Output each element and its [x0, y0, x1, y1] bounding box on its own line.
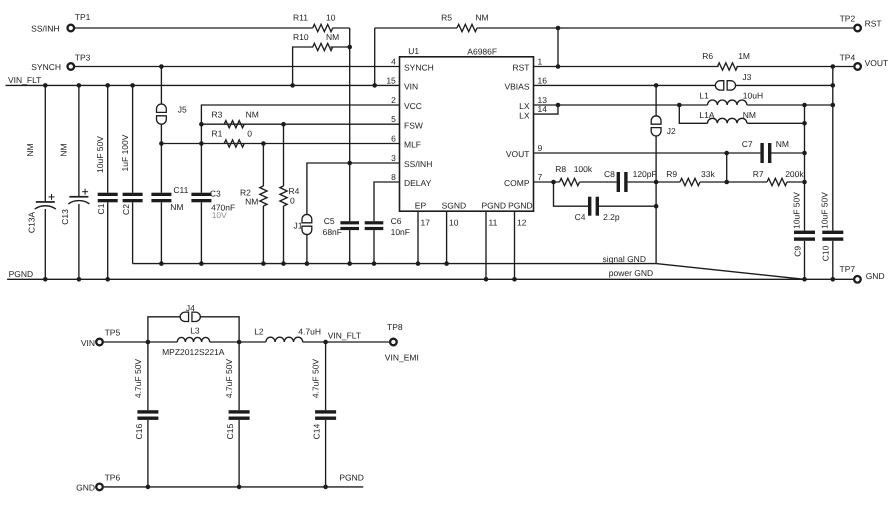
svg-text:MPZ2012S221A: MPZ2012S221A — [162, 347, 225, 357]
wire FB divider riser — [726, 153, 728, 182]
junction — [654, 204, 659, 209]
svg-text:VIN_EMI: VIN_EMI — [385, 353, 419, 363]
svg-text:R8: R8 — [555, 164, 566, 174]
wire R9 to riser — [700, 181, 727, 183]
svg-text:R10: R10 — [293, 32, 309, 42]
svg-text:TP7: TP7 — [840, 264, 856, 274]
wire VIN_FLT to pin 15 — [6, 84, 400, 86]
svg-text:SGND: SGND — [442, 201, 467, 211]
capacitor C8 — [617, 172, 620, 192]
junction — [159, 141, 164, 146]
svg-text:68nF: 68nF — [323, 227, 342, 237]
svg-text:11: 11 — [489, 217, 498, 227]
svg-text:C16: C16 — [134, 424, 144, 440]
svg-text:C13: C13 — [60, 209, 70, 225]
resistor R9 — [680, 178, 700, 185]
wire SYNCH to J5 — [160, 67, 162, 104]
svg-text:4.7uF 50V: 4.7uF 50V — [311, 359, 321, 399]
svg-text:4.7uF 50V: 4.7uF 50V — [133, 359, 143, 399]
wire LX pin14 riser — [534, 105, 559, 114]
junction — [43, 83, 48, 88]
wire C5 to signal GND — [349, 230, 351, 264]
svg-text:C9: C9 — [792, 246, 802, 257]
wire C13 to power GND — [78, 204, 80, 279]
capacitor C14 — [315, 410, 336, 413]
wire C1 to power GND — [107, 202, 109, 279]
svg-text:33k: 33k — [701, 169, 715, 179]
junction — [199, 261, 204, 266]
wire SYNCH TP3 to pin 4 — [75, 66, 400, 68]
junction — [556, 26, 561, 31]
svg-text:DELAY: DELAY — [404, 178, 432, 188]
svg-text:R5: R5 — [441, 13, 452, 23]
junction — [802, 180, 807, 185]
svg-text:NM: NM — [170, 202, 183, 212]
svg-text:C5: C5 — [324, 216, 335, 226]
capacitor C4 — [588, 197, 591, 216]
svg-text:17: 17 — [421, 217, 431, 227]
svg-text:10V: 10V — [212, 210, 227, 220]
junction — [831, 83, 836, 88]
wire EP stub — [417, 211, 419, 263]
svg-text:TP3: TP3 — [75, 53, 91, 63]
svg-text:4: 4 — [391, 57, 396, 67]
resistor R11 — [313, 24, 333, 31]
wire J2 to COMP row — [655, 135, 657, 182]
capacitor C13A — [36, 201, 55, 203]
capacitor C11 — [151, 193, 171, 196]
svg-text:GND: GND — [866, 271, 885, 281]
svg-text:R3: R3 — [212, 109, 223, 119]
svg-text:NM: NM — [25, 143, 35, 156]
capacitor C9 — [794, 231, 815, 234]
svg-text:NM: NM — [59, 143, 69, 156]
svg-text:9: 9 — [538, 143, 543, 153]
junction — [444, 261, 449, 266]
svg-text:C4: C4 — [575, 212, 586, 222]
junction — [724, 151, 729, 156]
junction — [281, 261, 286, 266]
svg-text:SYNCH: SYNCH — [404, 63, 434, 73]
wire J2 column to signal GND — [655, 182, 657, 264]
junction — [261, 261, 266, 266]
svg-text:U1: U1 — [408, 46, 419, 56]
test point TP5 — [96, 339, 103, 346]
junction — [159, 64, 164, 69]
svg-text:TP6: TP6 — [105, 472, 121, 482]
capacitor C15 — [229, 410, 250, 413]
junction — [347, 45, 352, 50]
svg-text:A6986F: A6986F — [467, 46, 497, 56]
junction — [831, 64, 836, 69]
wire C2 vertical — [132, 85, 134, 192]
svg-text:NM: NM — [326, 32, 339, 42]
wire C15 vertical — [238, 342, 240, 410]
wire VOUT pin 9 — [534, 152, 761, 154]
wire J3 to VOUT column — [735, 84, 833, 86]
test point TP7 — [854, 276, 861, 283]
junction — [556, 103, 561, 108]
svg-text:14: 14 — [538, 104, 548, 114]
svg-text:NM: NM — [246, 109, 259, 119]
inductor L1 — [708, 100, 747, 105]
svg-text:LX: LX — [519, 110, 530, 120]
svg-text:J4: J4 — [186, 303, 195, 313]
capacitor C13 — [69, 196, 88, 198]
junction — [654, 180, 659, 185]
svg-text:10uH: 10uH — [743, 91, 763, 101]
svg-text:R4: R4 — [289, 186, 300, 196]
svg-text:SS/INH: SS/INH — [404, 159, 432, 169]
svg-text:L3: L3 — [190, 325, 200, 335]
svg-text:VOUT: VOUT — [865, 58, 889, 68]
svg-text:NM: NM — [743, 110, 756, 120]
svg-text:200k: 200k — [785, 169, 804, 179]
capacitor C6 — [365, 221, 384, 224]
junction — [105, 277, 110, 282]
svg-text:SYNCH: SYNCH — [31, 62, 61, 72]
svg-text:TP8: TP8 — [387, 322, 403, 332]
wire C11 to signal GND — [160, 202, 162, 263]
wire R11 to vertical — [332, 27, 349, 29]
svg-text:C1: C1 — [96, 203, 106, 214]
svg-text:MLF: MLF — [404, 140, 421, 150]
wire R10 right — [330, 46, 349, 48]
wire DELAY pin 8 — [374, 182, 400, 221]
junction — [347, 261, 352, 266]
junction — [724, 180, 729, 185]
wire C13A vertical — [44, 85, 46, 201]
svg-text:3: 3 — [391, 153, 396, 163]
jumper J4 — [180, 312, 188, 321]
svg-text:C6: C6 — [391, 216, 402, 226]
test point TP8 — [390, 339, 397, 346]
svg-text:PGND: PGND — [482, 201, 507, 211]
svg-text:12: 12 — [517, 217, 527, 227]
svg-text:TP5: TP5 — [105, 328, 121, 338]
test point TP3 — [68, 63, 75, 70]
wire R2 top — [262, 144, 264, 187]
svg-text:10: 10 — [326, 13, 336, 23]
svg-text:VIN: VIN — [81, 338, 95, 348]
wire L2 to TP8 — [303, 341, 390, 343]
resistor R1 — [224, 140, 244, 147]
junction — [323, 340, 328, 345]
inductor L2 — [266, 337, 303, 342]
svg-text:R9: R9 — [666, 169, 677, 179]
svg-text:VCC: VCC — [404, 101, 422, 111]
inductor L3 — [177, 337, 209, 342]
junction — [199, 122, 204, 127]
junction — [237, 340, 242, 345]
wire VIN to R5 riser — [374, 28, 376, 85]
op-amp U1 A6986F body — [400, 57, 534, 211]
wire signal GND rail — [133, 263, 657, 265]
wire VBIAS to J2 — [655, 85, 657, 116]
svg-text:power GND: power GND — [609, 268, 653, 278]
svg-text:SS/INH: SS/INH — [31, 23, 59, 33]
wire C13A to power GND — [44, 209, 46, 279]
wire C4 branch — [554, 182, 589, 206]
wire R4 bottom — [283, 206, 285, 264]
junction — [372, 83, 377, 88]
svg-text:J3: J3 — [742, 72, 751, 82]
resistor R3 — [224, 121, 244, 128]
wire C3 to signal GND — [200, 202, 202, 263]
svg-text:1: 1 — [538, 57, 543, 67]
test point TP1 — [68, 25, 75, 32]
wire VBIAS to J3 — [534, 84, 716, 86]
wire SGND stub — [446, 211, 448, 263]
wire R7 to vertical — [787, 181, 805, 183]
capacitor C5 — [340, 221, 359, 224]
junction — [802, 103, 807, 108]
svg-text:2.2p: 2.2p — [603, 212, 620, 222]
wire R2 bottom — [262, 206, 264, 264]
svg-text:R11: R11 — [293, 13, 308, 23]
wire SS/INH TP1 to R11 — [75, 27, 313, 29]
wire L1A to vertical — [747, 122, 804, 124]
capacitor C2 — [123, 193, 143, 196]
svg-text:NM: NM — [475, 13, 488, 23]
svg-text:RST: RST — [865, 19, 882, 29]
wire TP6 GND rail — [104, 486, 363, 488]
test point TP6 — [96, 484, 103, 491]
junction — [323, 485, 328, 490]
resistor R5 — [457, 24, 477, 31]
svg-text:PGND: PGND — [339, 472, 364, 482]
junction — [237, 485, 242, 490]
capacitor C3 — [191, 193, 211, 196]
resistor R4 — [280, 186, 287, 206]
junction — [802, 277, 807, 282]
junction — [802, 121, 807, 126]
jumper J2 — [651, 116, 661, 124]
svg-text:10uF 50V: 10uF 50V — [95, 136, 105, 173]
svg-text:VOUT: VOUT — [506, 149, 530, 159]
svg-text:15: 15 — [386, 75, 396, 85]
wire C16 vertical — [147, 342, 149, 410]
svg-text:C15: C15 — [225, 424, 235, 440]
junction — [654, 83, 659, 88]
junction — [261, 141, 266, 146]
wire L1A drop — [679, 105, 707, 123]
wire L1 to VOUT column — [747, 104, 833, 106]
wire power GND rail — [7, 278, 853, 280]
svg-text:NM: NM — [776, 139, 789, 149]
wire LX pin13 to L1 — [534, 104, 708, 106]
svg-text:PGND: PGND — [9, 269, 34, 279]
wire SS/INH pin 3 — [307, 163, 400, 215]
junction — [556, 64, 561, 69]
svg-text:C10: C10 — [821, 245, 831, 261]
wire vertical R11/R10 to SS/INH pin line — [349, 28, 351, 163]
junction — [305, 261, 310, 266]
svg-text:L1A: L1A — [699, 110, 714, 120]
wire RST riser — [557, 28, 559, 67]
svg-text:signal GND: signal GND — [603, 254, 646, 264]
svg-text:L2: L2 — [254, 327, 264, 337]
wire VOUT TP4 column — [832, 67, 834, 231]
svg-text:C8: C8 — [604, 169, 615, 179]
junction — [146, 485, 151, 490]
junction — [372, 261, 377, 266]
wire J4 bypass right — [200, 317, 239, 342]
wire C1 vertical — [107, 85, 109, 192]
junction — [159, 261, 164, 266]
wire PGND12 stub — [514, 211, 516, 279]
svg-text:7: 7 — [538, 172, 543, 182]
svg-text:10: 10 — [449, 217, 459, 227]
wire C15 to GND rail — [238, 420, 240, 487]
wire C9 to power GND — [804, 241, 806, 279]
svg-text:C7: C7 — [742, 139, 753, 149]
capacitor C10 — [822, 231, 843, 234]
wire C5 vertical — [349, 163, 351, 221]
svg-text:8: 8 — [391, 172, 396, 182]
svg-text:VBIAS: VBIAS — [504, 82, 529, 92]
wire C9 vertical — [804, 105, 806, 231]
svg-text:COMP: COMP — [504, 178, 530, 188]
svg-text:C13A: C13A — [27, 212, 37, 234]
wire C7 right — [771, 152, 805, 154]
junction — [146, 340, 151, 345]
wire VCC corner — [201, 105, 399, 193]
svg-text:R7: R7 — [753, 169, 764, 179]
svg-text:RST: RST — [513, 63, 530, 73]
svg-text:16: 16 — [538, 75, 548, 85]
wire R10 left corner — [293, 47, 314, 85]
wire PGND11 stub — [485, 211, 487, 279]
junction — [551, 180, 556, 185]
wire R6 to TP4 — [737, 66, 854, 68]
wire J1 to signal GND — [306, 234, 308, 264]
wire C8 to J2 column — [628, 181, 657, 183]
junction — [416, 261, 421, 266]
junction — [105, 83, 110, 88]
svg-text:2: 2 — [391, 95, 396, 105]
svg-text:R1: R1 — [212, 129, 223, 139]
wire TP5 to L3 — [104, 341, 178, 343]
svg-text:10uF 50V: 10uF 50V — [791, 192, 801, 229]
svg-text:J5: J5 — [178, 105, 187, 115]
wire R9 row — [656, 181, 680, 183]
wire J4 bypass left — [148, 317, 181, 342]
svg-text:J1: J1 — [294, 220, 303, 230]
svg-text:J2: J2 — [667, 126, 676, 136]
inductor L1A — [708, 118, 747, 123]
svg-text:C3: C3 — [210, 189, 221, 199]
svg-text:C14: C14 — [312, 424, 322, 440]
capacitor C16 — [137, 410, 158, 413]
svg-text:TP1: TP1 — [75, 12, 91, 22]
svg-text:C2: C2 — [121, 204, 131, 215]
junction — [512, 277, 517, 282]
wire C2 to signal GND corner — [132, 202, 134, 263]
svg-text:NM: NM — [245, 197, 258, 207]
test point TP2 — [854, 25, 861, 32]
wire C6 to signal GND — [373, 230, 375, 264]
svg-text:10nF: 10nF — [391, 227, 410, 237]
junction — [484, 277, 489, 282]
wire C14 to GND rail — [325, 420, 327, 487]
junction — [290, 83, 295, 88]
svg-text:C11: C11 — [173, 185, 188, 195]
svg-text:10uF 50V: 10uF 50V — [820, 192, 830, 229]
svg-text:FSW: FSW — [404, 120, 423, 130]
wire C13 vertical — [78, 85, 80, 196]
wire C4 to J2 column — [599, 205, 656, 207]
junction — [677, 103, 682, 108]
jumper J1 — [302, 214, 312, 222]
junction — [831, 103, 836, 108]
resistor R8 — [560, 178, 580, 185]
wire L3 to L2 — [210, 341, 266, 343]
wire COMP pin to R8 — [534, 181, 560, 183]
resistor R7 — [767, 178, 787, 185]
wire RST pin to R6 — [534, 66, 719, 68]
svg-text:120pF: 120pF — [633, 169, 657, 179]
wire R9 to R7 — [727, 181, 767, 183]
svg-text:4.7uF 50V: 4.7uF 50V — [224, 359, 234, 399]
svg-text:EP: EP — [415, 201, 427, 211]
svg-text:PGND: PGND — [508, 201, 533, 211]
svg-text:100k: 100k — [574, 164, 593, 174]
wire signal to power GND diagonal — [656, 264, 804, 280]
svg-text:VIN_FLT: VIN_FLT — [328, 331, 361, 341]
capacitor C1 — [98, 193, 118, 196]
svg-text:0: 0 — [247, 129, 252, 139]
svg-text:5: 5 — [391, 114, 396, 124]
wire R5 to TP2 — [477, 27, 853, 29]
wire MLF R1 row — [161, 143, 399, 145]
svg-text:1uF 100V: 1uF 100V — [120, 134, 130, 171]
junction — [831, 277, 836, 282]
svg-text:VIN: VIN — [404, 82, 418, 92]
wire J5 to MLF — [160, 124, 162, 143]
svg-text:VIN_FLT: VIN_FLT — [8, 75, 41, 85]
svg-text:1M: 1M — [738, 51, 750, 61]
capacitor C7 — [760, 143, 763, 163]
wire R8 to C8 — [580, 181, 617, 183]
junction — [77, 83, 82, 88]
svg-text:TP2: TP2 — [840, 13, 856, 23]
resistor R10 — [313, 43, 333, 50]
junction — [130, 83, 135, 88]
junction — [347, 161, 352, 166]
junction — [43, 277, 48, 282]
junction — [77, 277, 82, 282]
wire R4 top — [283, 124, 285, 186]
junction — [199, 141, 204, 146]
jumper J5 — [157, 104, 167, 112]
svg-text:GND: GND — [76, 483, 95, 493]
wire FSW R3 row — [201, 123, 399, 125]
wire C10 to power GND — [832, 241, 834, 279]
svg-text:6: 6 — [391, 134, 396, 144]
svg-text:R6: R6 — [702, 51, 713, 61]
svg-text:0: 0 — [290, 196, 295, 206]
svg-text:L1: L1 — [699, 91, 709, 101]
wire R5 row left — [375, 27, 457, 29]
wire C14 vertical — [325, 342, 327, 410]
test point TP4 — [854, 63, 861, 70]
junction — [281, 122, 286, 127]
junction — [802, 151, 807, 156]
wire C16 to GND rail — [147, 420, 149, 487]
resistor R2 — [260, 186, 267, 206]
jumper J3 — [715, 81, 723, 90]
